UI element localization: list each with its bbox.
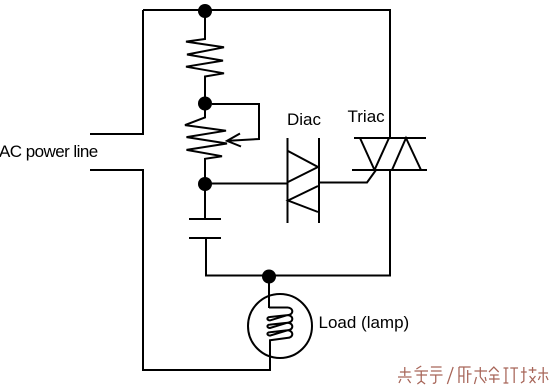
svg-text:AC power line: AC power line — [0, 142, 98, 161]
svg-text:Triac: Triac — [348, 107, 386, 126]
svg-text:Load (lamp): Load (lamp) — [319, 313, 410, 332]
svg-text:Diac: Diac — [287, 110, 322, 129]
